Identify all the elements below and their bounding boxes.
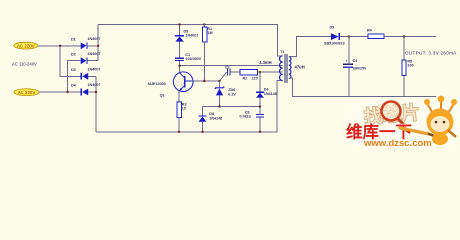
junction dot D4 bus <box>95 91 97 93</box>
watermark magnifier <box>382 102 406 127</box>
svg-text:+: + <box>345 59 348 64</box>
svg-text:T1: T1 <box>280 50 284 54</box>
wire collector node B <box>180 65 283 67</box>
diode D9 <box>331 33 340 40</box>
svg-text:AC 110-240V: AC 110-240V <box>12 61 37 66</box>
resistor R2 <box>240 69 258 75</box>
label D6 1N4148 <box>264 88 277 96</box>
wire D9 to R4 <box>340 36 368 38</box>
svg-text:1N4148: 1N4148 <box>264 92 277 96</box>
label D9 SB5100/819 <box>324 26 345 46</box>
wire DC+ right vertical of bridge <box>97 24 99 60</box>
capacitor C4 electrolytic <box>343 37 353 97</box>
label R3 10 <box>182 102 187 110</box>
wire AC1 to D1 anode <box>38 45 81 47</box>
svg-text:R2: R2 <box>243 77 248 81</box>
label D8 1N4148 <box>209 112 222 120</box>
label D1 1N4007 <box>71 37 100 42</box>
resistor R5 <box>402 37 406 97</box>
junction dot bottom bus D8 <box>201 131 203 133</box>
svg-text:47uH: 47uH <box>295 65 305 70</box>
watermark background <box>348 100 460 148</box>
junction dot base zener <box>218 80 220 82</box>
svg-text:1N4148: 1N4148 <box>209 117 222 121</box>
svg-text:AC 220V: AC 220V <box>17 43 35 48</box>
junction dot R1 base <box>203 80 205 82</box>
svg-text:D4: D4 <box>71 84 77 88</box>
svg-text:1N4007: 1N4007 <box>88 52 101 56</box>
svg-text:1N4007: 1N4007 <box>88 83 101 87</box>
resistor R3 <box>177 102 181 132</box>
label MJE13003 Q1 <box>148 82 166 98</box>
svg-text:MJE13003: MJE13003 <box>148 82 166 86</box>
svg-text:3.3mH: 3.3mH <box>259 60 272 65</box>
svg-text:D2: D2 <box>71 52 76 56</box>
node AC2 input label <box>14 89 39 96</box>
wire D3 anode to lower vertical <box>88 75 96 77</box>
diode D1 <box>81 42 88 49</box>
watermark pencil <box>400 128 429 134</box>
wire secondary top to output <box>289 37 331 57</box>
svg-text:1N4007: 1N4007 <box>88 37 101 41</box>
wire D2 cathode to right bus <box>88 60 99 62</box>
svg-text:SB5100/819: SB5100/819 <box>324 41 345 45</box>
svg-text:103/400V: 103/400V <box>185 57 201 61</box>
wire R4 to output terminal <box>384 36 436 38</box>
junction dot snubber collector <box>178 65 180 67</box>
svg-text:220: 220 <box>252 77 258 81</box>
svg-text:1N4007: 1N4007 <box>88 68 101 72</box>
svg-text:D3: D3 <box>71 68 76 72</box>
diode D6 <box>256 72 264 114</box>
svg-text:D1: D1 <box>71 38 76 42</box>
svg-text:100: 100 <box>407 64 413 68</box>
label D5 1N4007 <box>184 29 199 37</box>
svg-text:R4: R4 <box>367 29 373 33</box>
capacitor C3 <box>256 114 264 132</box>
wire R2 to feedback winding <box>258 71 283 73</box>
wire C2 to R2 <box>231 71 241 73</box>
junction dot D6 C3 node <box>259 105 261 107</box>
label C1 103/400V <box>185 53 201 61</box>
wire base line <box>192 80 219 82</box>
label C3 0.022u <box>240 111 252 119</box>
diode D3 <box>81 73 89 80</box>
junction dot C4 top <box>348 35 350 37</box>
diode D8 <box>198 107 206 132</box>
svg-text:D9: D9 <box>330 26 335 30</box>
svg-text:C4: C4 <box>353 59 359 63</box>
wire bottom bus DC- <box>96 81 283 132</box>
zener diode ZD6 <box>215 81 224 107</box>
label D2 1N4007 <box>71 52 100 56</box>
wire vertical AC1 down to D3 row <box>60 46 80 77</box>
wire collector stub <box>179 66 181 73</box>
label R1 1M <box>207 27 212 35</box>
watermark mascot <box>424 96 457 145</box>
svg-text:C2: C2 <box>225 65 230 69</box>
diode D2 <box>81 57 88 64</box>
svg-text:10: 10 <box>182 106 186 110</box>
wire snubber branch D5 C1 <box>179 24 181 65</box>
node AC1 input label <box>14 42 38 49</box>
svg-text:1N4007: 1N4007 <box>185 34 198 38</box>
junction dot D1 cathode bus <box>97 45 99 47</box>
svg-text:ZD6: ZD6 <box>228 88 235 92</box>
junction dot AC1-vertical <box>59 45 61 47</box>
label D4 1N4007 <box>71 83 100 87</box>
junction dot top bus R1 <box>203 23 205 25</box>
junction dot R5 top <box>403 35 405 37</box>
label R2 220 <box>243 77 258 81</box>
transformer T1 <box>280 54 292 83</box>
wire secondary bottom to output bus <box>289 78 436 96</box>
label C4 680/25V plus <box>345 59 367 71</box>
wire zener D8 horizontal <box>203 106 261 108</box>
wire D1 cathode to right bus <box>88 45 99 47</box>
junction dot feedback D6 <box>259 71 261 73</box>
wire D4 anode to lower vertical <box>88 91 96 93</box>
svg-text:Q1: Q1 <box>160 94 165 98</box>
svg-text:AC 220V: AC 220V <box>18 90 36 95</box>
wire AC2 to D4 <box>39 91 81 93</box>
label D3 1N4007 <box>71 68 100 72</box>
wire vertical AC2 up to D2 anode <box>68 61 81 92</box>
svg-text:OUTPUT: 3.3V 260mA: OUTPUT: 3.3V 260mA <box>405 51 457 56</box>
svg-text:1M: 1M <box>207 31 212 35</box>
wire DC- left vertical to bottom bus <box>95 76 97 132</box>
wire base diagonal to C2 <box>220 72 227 81</box>
capacitor C2 <box>227 69 231 76</box>
wire top bus DC+ <box>98 24 282 55</box>
resistor R4 <box>368 34 384 39</box>
svg-text:D8: D8 <box>209 112 214 116</box>
diode D5 <box>175 35 184 41</box>
capacitor C1 <box>175 58 184 62</box>
junction dot AC2-vertical <box>66 91 68 93</box>
svg-text:0.022u: 0.022u <box>240 115 252 119</box>
svg-text:www.dzsc.com: www.dzsc.com <box>363 138 432 149</box>
svg-text:6.2V: 6.2V <box>228 93 236 97</box>
junction dot bottom bus R3 <box>178 131 180 133</box>
junction dot top bus D5 <box>178 23 180 25</box>
diode D4 <box>81 89 89 96</box>
transistor Q1 MJE13003 <box>173 72 193 92</box>
junction dot zener node <box>218 105 220 107</box>
label ZD6 6.2V <box>228 88 236 97</box>
junction dot bottom bus C3 <box>259 131 261 133</box>
label R5 100 <box>407 60 413 68</box>
svg-text:680/25V: 680/25V <box>353 66 367 70</box>
wire emitter to R3 <box>178 91 180 103</box>
resistor R1 <box>202 24 207 81</box>
